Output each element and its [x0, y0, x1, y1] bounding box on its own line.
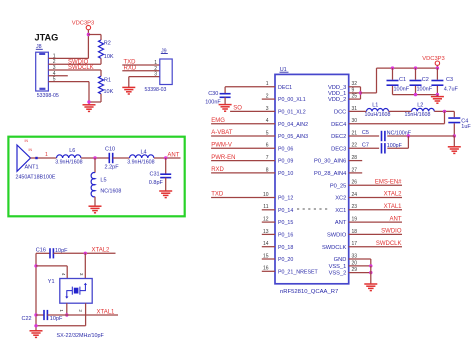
svg-text:2450AT18B100E: 2450AT18B100E: [16, 175, 56, 181]
svg-text:P0_15: P0_15: [278, 220, 293, 226]
wire VDD to rail: [361, 68, 377, 93]
svg-text:3: 3: [154, 72, 157, 78]
svg-text:L5: L5: [100, 178, 106, 184]
svg-text:IN: IN: [25, 139, 29, 143]
svg-text:16: 16: [263, 266, 269, 272]
svg-text:JTAG: JTAG: [35, 33, 59, 43]
svg-text:2: 2: [266, 94, 269, 100]
svg-text:P0_21_NRESET: P0_21_NRESET: [278, 269, 319, 275]
svg-text:L1: L1: [372, 103, 378, 109]
svg-text:53398-05: 53398-05: [37, 93, 59, 99]
pin 10 of U1 (P0_12): [211, 192, 293, 202]
svg-text:C30: C30: [208, 91, 218, 97]
net label XTAL1: [384, 204, 403, 210]
wire L4 to ANT: [154, 157, 181, 159]
svg-text:1: 1: [59, 309, 64, 312]
power VDC3P3 (main): [422, 56, 445, 68]
svg-text:P0_16: P0_16: [278, 233, 293, 239]
svg-text:C7: C7: [362, 142, 369, 148]
capacitor C4: [448, 111, 471, 136]
wire C7 riser: [387, 136, 408, 148]
wire VSS to ground: [370, 266, 372, 284]
svg-text:R2: R2: [104, 40, 111, 46]
wire VDD bottom rail: [393, 94, 438, 96]
svg-text:ANT: ANT: [390, 216, 402, 222]
wire XTAL left rail: [35, 253, 37, 330]
capacitor C7: [362, 142, 403, 153]
svg-text:C31: C31: [150, 171, 160, 177]
net label XTAL2: [384, 192, 403, 198]
svg-text:P0_25: P0_25: [330, 183, 346, 189]
pin 20 of U1 (VSS_1): [329, 260, 358, 270]
junction L5: [93, 156, 96, 159]
wire R1 bottom elbow: [89, 101, 101, 103]
pin 11 of U1 (P0_14): [262, 204, 294, 214]
junction C4 bottom: [453, 134, 456, 137]
resistor R2: [99, 35, 114, 65]
svg-text:P0_14: P0_14: [278, 208, 293, 214]
wire L6 to C10: [81, 157, 109, 159]
pin 1 of J8: [48, 53, 88, 59]
svg-text:11: 11: [263, 204, 268, 210]
crystal Y1: [48, 279, 92, 304]
svg-text:C5: C5: [362, 130, 369, 136]
svg-text:P0_18: P0_18: [278, 245, 293, 251]
svg-text:EMS-EN#: EMS-EN#: [375, 179, 402, 185]
svg-text:DCC: DCC: [334, 110, 346, 116]
capacitor C22: [22, 310, 63, 322]
wire XTAL1 rail: [36, 314, 44, 316]
svg-text:NC/1608: NC/1608: [100, 188, 121, 194]
power VDC3P3 (JTAG): [72, 20, 95, 34]
svg-text:1: 1: [45, 152, 48, 158]
net label PWM-V: [211, 143, 232, 149]
pin 21 of U1 (DEC2): [331, 130, 357, 140]
antenna ANT1: [16, 139, 56, 181]
wire Y1 pin4: [36, 266, 67, 279]
junction rail C3: [436, 66, 439, 69]
svg-text:DEC1: DEC1: [278, 85, 292, 91]
pin 29 of U1 (VSS_2): [329, 267, 358, 277]
wire C10 to L4: [113, 157, 130, 159]
svg-text:6: 6: [266, 143, 269, 149]
pin 14 of U1 (P0_18): [262, 241, 294, 251]
svg-text:EMG: EMG: [211, 118, 225, 124]
junction VSS_1: [369, 264, 372, 267]
svg-text:P0_28_AIN4: P0_28_AIN4: [314, 171, 346, 177]
wire VSS_2: [349, 272, 371, 274]
junction J8 ground: [87, 100, 90, 103]
pin 32 of U1 (VDD_3): [328, 81, 357, 91]
wire top to C16: [36, 252, 50, 254]
svg-text:P0_12: P0_12: [278, 196, 293, 202]
ground (C4): [448, 147, 461, 154]
pin 12 of U1 (P0_15): [262, 217, 294, 227]
svg-text:TXD: TXD: [211, 192, 224, 198]
svg-text:RXD: RXD: [211, 167, 224, 173]
inductor L2: [405, 103, 435, 118]
svg-text:IN: IN: [29, 148, 33, 152]
pin 30 of U1 (DEC4): [331, 118, 357, 128]
wire L1 to L2: [389, 110, 412, 112]
junction rail C2: [414, 66, 417, 69]
svg-text:10pF: 10pF: [50, 316, 63, 322]
svg-text:13: 13: [263, 229, 269, 235]
svg-text:XC2: XC2: [335, 196, 346, 202]
svg-text:C16: C16: [36, 247, 46, 253]
svg-text:P0_06: P0_06: [278, 146, 293, 152]
svg-text:7: 7: [266, 155, 269, 161]
wire C5 out: [387, 135, 454, 137]
pin 22 of U1 (DEC3): [331, 143, 357, 153]
pin 3 of J9: [154, 72, 157, 78]
svg-text:C1: C1: [399, 77, 406, 83]
wire C4 to ground: [453, 136, 455, 147]
inductor L4: [127, 149, 154, 165]
pin 33 of U1 (GND): [334, 253, 358, 263]
svg-text:VSS_2: VSS_2: [329, 271, 347, 277]
wire C22 to XTAL1: [47, 314, 118, 316]
svg-text:XTAL2: XTAL2: [92, 248, 111, 254]
pin 2 of U1 (P0_00_XL1): [262, 94, 306, 104]
connector J9: [145, 48, 173, 93]
svg-text:P0_09: P0_09: [278, 159, 293, 165]
net label XTAL2: [92, 248, 111, 254]
wire L2 out: [434, 110, 454, 112]
svg-text:P0_30_AIN6: P0_30_AIN6: [314, 159, 346, 165]
svg-text:4.7uF: 4.7uF: [444, 86, 459, 92]
pin 18 of U1 (SWDIO): [327, 229, 402, 239]
svg-text:XTAL1: XTAL1: [97, 309, 116, 315]
svg-text:VDD_3: VDD_3: [328, 85, 346, 91]
svg-text:P0_00_XL1: P0_00_XL1: [278, 97, 306, 103]
pin 8 of U1 (P0_10): [211, 167, 293, 177]
ground (U1 VSS): [364, 284, 377, 291]
value label crystal: [57, 333, 105, 339]
net label SO: [233, 106, 242, 112]
svg-text:C2: C2: [422, 77, 429, 83]
wire R2 top elbow: [88, 34, 101, 36]
svg-text:ANT1: ANT1: [25, 165, 39, 171]
wire DEC3 to C7: [349, 147, 379, 149]
svg-text:VSS_1: VSS_1: [329, 264, 347, 270]
junction Y1 pin1/XTAL1: [65, 313, 68, 316]
ground (L5): [89, 206, 102, 213]
svg-text:SWDIO: SWDIO: [381, 229, 402, 235]
svg-text:C3: C3: [446, 77, 453, 83]
junction C22 rail: [34, 313, 37, 316]
svg-text:VDD_1: VDD_1: [328, 91, 346, 97]
svg-text:P0_05_AIN3: P0_05_AIN3: [278, 134, 308, 140]
svg-text:P0_01_XL2: P0_01_XL2: [278, 110, 306, 116]
junction L2/DEC4: [443, 110, 446, 113]
net label SWDCLK: [376, 241, 402, 247]
net label SWDIO: [68, 59, 89, 65]
net label SWDCLK: [68, 65, 94, 71]
net label EMS-EN#: [375, 179, 402, 185]
wire VDD top rail: [377, 67, 438, 69]
junction C31: [164, 156, 167, 159]
svg-text:SO: SO: [233, 106, 242, 112]
svg-text:ANT: ANT: [335, 220, 347, 226]
net label RXD: [211, 167, 224, 173]
ground (C30): [219, 105, 232, 112]
junction bottom C2: [414, 93, 417, 96]
svg-text:P0_20: P0_20: [278, 257, 293, 263]
svg-text:XC1: XC1: [335, 208, 346, 214]
net label A-VBAT: [211, 130, 233, 136]
pin 25 of U1 (VDD_2): [328, 94, 357, 104]
connector J8: [36, 44, 59, 99]
svg-text:SWDCLK: SWDCLK: [322, 245, 347, 251]
junction Y1 pin3: [84, 252, 87, 255]
wire J8 pin5 drop: [88, 82, 90, 105]
svg-text:3: 3: [266, 106, 269, 112]
wire Y1 pin1: [59, 303, 67, 315]
pin 9 of U1 (VDD_1): [328, 87, 355, 97]
wire DEC4 riser: [349, 111, 445, 123]
pin 5 of U1 (P0_05_AIN3): [211, 130, 308, 140]
wire VDC3P3 to J8 pin1: [87, 35, 89, 59]
junction pin2 rail: [34, 324, 37, 327]
wire L5 top: [94, 158, 96, 173]
svg-text:1uF: 1uF: [461, 124, 471, 130]
wire GND bend: [349, 259, 371, 266]
net label SWDIO: [381, 229, 402, 235]
pin 5 of J8: [48, 77, 89, 83]
svg-text:DEC2: DEC2: [331, 134, 346, 140]
svg-text:Y1: Y1: [48, 279, 55, 285]
svg-text:VDD_2: VDD_2: [328, 97, 346, 103]
pin 15 of U1 (P0_20): [262, 253, 294, 263]
junction VDD: [359, 91, 362, 94]
pin 17 of U1 (SWDCLK): [322, 241, 402, 251]
svg-text:10uH/1608: 10uH/1608: [365, 112, 391, 118]
svg-text:XTAL2: XTAL2: [384, 192, 403, 198]
pin 6 of U1 (P0_06): [211, 143, 293, 153]
svg-text:SWDIO: SWDIO: [327, 233, 347, 239]
svg-text:L6: L6: [69, 148, 75, 154]
svg-text:4: 4: [61, 273, 66, 276]
svg-text:C10: C10: [105, 147, 115, 153]
capacitor C31: [149, 158, 171, 191]
inductor L5: [91, 173, 121, 197]
junction VDC3P3/R2: [87, 33, 90, 36]
wire VDD_2 bend: [349, 93, 361, 99]
wire Y1 pin2: [36, 303, 86, 326]
ground (C3): [431, 97, 444, 104]
net label EMG: [211, 118, 225, 124]
wire VSS_1: [349, 265, 371, 267]
pin 19 of U1 (ANT): [335, 217, 402, 227]
ground (XTAL): [30, 331, 43, 338]
svg-text:L2: L2: [417, 103, 423, 109]
pin 3 of J8: [48, 65, 101, 71]
junction pin4 rail: [34, 264, 37, 267]
svg-text:10K: 10K: [104, 89, 114, 95]
inductor L6: [55, 148, 82, 165]
pin 26 of U1 (P0_25): [330, 180, 402, 190]
svg-text:3: 3: [79, 273, 84, 276]
svg-text:12: 12: [263, 217, 269, 223]
wire VDD_1: [349, 92, 361, 94]
pin 13 of U1 (P0_16): [262, 229, 294, 239]
svg-text:10K: 10K: [104, 54, 114, 60]
ground (C31): [159, 191, 172, 198]
svg-text:ANT: ANT: [167, 152, 179, 158]
svg-text:4: 4: [266, 118, 269, 124]
op-amp U1 body: [275, 67, 349, 295]
capacitor C5: [362, 130, 412, 141]
net label XTAL1: [97, 309, 116, 315]
no-connect dashes P0_14: [297, 208, 329, 210]
RF matching network frame: [8, 137, 184, 217]
svg-text:P0_04_AIN2: P0_04_AIN2: [278, 122, 308, 128]
svg-text:5: 5: [266, 130, 269, 136]
svg-text:2.2pF: 2.2pF: [105, 165, 120, 171]
wire Y1 pin3: [79, 253, 85, 278]
capacitor C3: [431, 68, 458, 95]
pin 3 of U1 (P0_01_XL2): [230, 106, 306, 116]
svg-text:A-VBAT: A-VBAT: [211, 130, 233, 136]
svg-text:nRF52810_QCAA_R7: nRF52810_QCAA_R7: [280, 289, 338, 295]
net label TXD (J9): [124, 60, 137, 66]
svg-text:PWM-V: PWM-V: [211, 143, 232, 149]
net label ANT (RF): [167, 152, 179, 158]
wire VDD_3 bend: [349, 87, 361, 93]
pin 16 of U1 (P0_21_NRESET): [262, 266, 319, 276]
svg-text:SX-22/32MHz/10pF: SX-22/32MHz/10pF: [57, 333, 105, 339]
svg-text:SWDCLK: SWDCLK: [68, 65, 94, 71]
wire ANT1 to L6: [31, 152, 57, 159]
wire DEC2 to C5: [349, 135, 379, 137]
pin 1 of J9: [154, 60, 157, 66]
pin 7 of U1 (P0_09): [211, 155, 293, 165]
wire DCC to L1: [349, 110, 367, 112]
wire C16 to XTAL2: [53, 252, 115, 254]
capacitor C2: [410, 68, 433, 95]
junction C7: [407, 134, 410, 137]
wire TXD: [122, 64, 160, 66]
wire L5 to ground: [94, 197, 96, 206]
svg-text:P0_10: P0_10: [278, 171, 293, 177]
svg-text:VDC3P3: VDC3P3: [422, 56, 445, 62]
pin 4 of U1 (P0_04_AIN2): [211, 118, 308, 128]
capacitor C10: [105, 147, 120, 171]
junction VSS_2: [369, 271, 372, 274]
resistor R1: [99, 70, 114, 102]
svg-text:DEC4: DEC4: [331, 122, 346, 128]
svg-text:SWDCLK: SWDCLK: [376, 241, 402, 247]
capacitor C16: [36, 247, 68, 258]
ground (J9): [122, 87, 135, 94]
svg-text:L4: L4: [141, 149, 147, 155]
svg-text:VDC3P3: VDC3P3: [72, 20, 95, 26]
svg-text:14: 14: [263, 241, 269, 247]
svg-text:XTAL1: XTAL1: [384, 204, 403, 210]
net label TXD: [211, 192, 224, 198]
capacitor C1: [387, 68, 410, 95]
pin 1 of U1 (DEC1): [225, 81, 292, 91]
svg-text:15: 15: [263, 253, 269, 259]
net label RXD (J9): [124, 65, 137, 71]
net label ANT: [390, 216, 402, 222]
pin 28 of U1 (P0_30_AIN6): [314, 155, 362, 165]
ground (JTAG): [83, 105, 96, 112]
wire DEC1 to C30: [224, 87, 226, 94]
svg-text:2: 2: [78, 309, 83, 312]
svg-text:0.8pF: 0.8pF: [149, 180, 164, 186]
svg-text:100nF: 100nF: [417, 86, 433, 92]
svg-text:PWR-EN: PWR-EN: [211, 155, 235, 161]
inductor L1: [365, 103, 391, 118]
svg-text:3.9nH/1608: 3.9nH/1608: [55, 159, 82, 165]
svg-text:100nF: 100nF: [394, 86, 410, 92]
title JTAG: [35, 33, 59, 43]
pin 2 of J9: [154, 66, 157, 72]
svg-text:10: 10: [263, 192, 269, 198]
svg-text:DEC3: DEC3: [331, 146, 346, 152]
svg-text:8: 8: [266, 167, 269, 173]
svg-text:15nH/1608: 15nH/1608: [405, 112, 431, 118]
svg-text:C22: C22: [22, 316, 32, 322]
capacitor C30: [205, 91, 230, 105]
pin 24 of U1 (XC2): [335, 192, 402, 202]
pin 31 of U1 (DCC): [334, 106, 357, 116]
junction bottom C3: [436, 93, 439, 96]
svg-text:R1: R1: [104, 78, 111, 84]
wire C3 to ground: [436, 95, 438, 97]
net label PWR-EN: [211, 155, 235, 161]
svg-text:53398-03: 53398-03: [145, 87, 167, 93]
svg-text:1: 1: [266, 81, 269, 87]
wire J9 pin3 to ground: [129, 77, 160, 88]
pin 4 of J8: [48, 71, 67, 77]
svg-text:3.9nH/1608: 3.9nH/1608: [127, 159, 154, 165]
pin 2 of J8: [48, 59, 101, 65]
svg-text:GND: GND: [334, 257, 347, 263]
pin 27 of U1 (P0_28_AIN4): [314, 167, 362, 177]
wire RXD: [122, 70, 160, 72]
pin 23 of U1 (XC1): [335, 204, 402, 214]
junction rail C1: [391, 66, 394, 69]
